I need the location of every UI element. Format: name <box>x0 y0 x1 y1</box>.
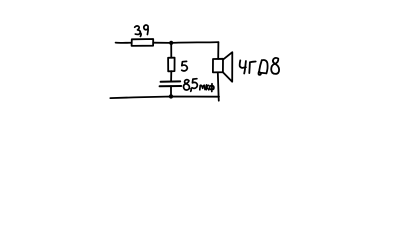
wire R2 to capacitor <box>170 71 172 81</box>
wire capacitor to node B <box>170 86 172 96</box>
resistor R2 <box>168 58 175 72</box>
wire node A down <box>170 43 172 58</box>
wire bottom <box>110 97 219 99</box>
label 4ГД8 <box>240 58 279 75</box>
wire right vertical bottom <box>218 72 219 100</box>
capacitor C1 bottom plate <box>160 85 182 87</box>
speaker LS1 body <box>213 59 223 73</box>
wire right vertical top <box>217 42 219 59</box>
label 8,5 мкф <box>184 79 198 92</box>
capacitor C1 top plate <box>161 80 181 82</box>
node B junction dot <box>169 94 173 98</box>
resistor R1 <box>132 39 154 46</box>
wire left input <box>116 42 132 44</box>
wire R1 to node A and to top-right corner <box>153 41 218 44</box>
node A junction dot <box>169 41 173 45</box>
speaker LS1 cone <box>223 52 233 81</box>
label 3,9 <box>135 25 148 36</box>
label 5 <box>182 61 188 71</box>
